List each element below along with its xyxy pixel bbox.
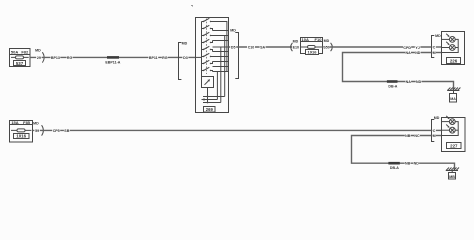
node label 1016 <box>14 134 30 139</box>
connector MD bracket at switch right <box>230 28 238 78</box>
svg-text:S50: S50 <box>323 45 329 49</box>
pin label C <box>432 128 436 133</box>
connector MD pin E10 <box>291 40 299 52</box>
wire label ND <box>415 50 421 55</box>
svg-text:MD: MD <box>35 48 41 52</box>
svg-text:MD: MD <box>33 121 39 125</box>
splice DB-A <box>388 162 399 170</box>
svg-text:CP5: CP5 <box>53 129 60 133</box>
inner actuator box <box>202 77 214 88</box>
svg-text:226: 226 <box>450 59 458 64</box>
svg-text:F85: F85 <box>23 120 31 125</box>
svg-text:269: 269 <box>206 107 214 112</box>
svg-text:MD: MD <box>435 34 441 38</box>
switch common rail <box>201 22 203 77</box>
switch contact 4 <box>202 39 212 43</box>
wire label SB <box>64 128 70 133</box>
pin label M <box>432 133 436 138</box>
svg-text:537: 537 <box>16 61 24 66</box>
wire label NA <box>405 50 411 55</box>
svg-text:M: M <box>433 134 436 138</box>
splice EBP11-A <box>105 56 120 65</box>
node label 1916 <box>306 50 319 55</box>
svg-text:D3: D3 <box>183 56 188 60</box>
wire label CPD <box>403 45 411 50</box>
svg-text:NB: NB <box>405 162 411 166</box>
wire label NA <box>405 79 411 84</box>
junction lines <box>202 88 225 104</box>
pin label C <box>432 45 436 50</box>
svg-text:NA: NA <box>405 51 411 55</box>
switch contact 8 <box>202 67 212 71</box>
connector MD pin 29 <box>35 48 44 62</box>
ground MB <box>446 168 459 180</box>
wire label RG <box>67 55 73 60</box>
svg-text:RG: RG <box>162 56 168 60</box>
svg-text:15A: 15A <box>11 120 18 125</box>
pin C wire <box>432 129 442 131</box>
pin label D5 <box>230 45 236 50</box>
svg-text:29: 29 <box>37 56 41 60</box>
lamp feed branches <box>442 38 450 40</box>
lamp return branch <box>442 122 459 136</box>
switch contact 1 <box>202 18 212 22</box>
fuse box 1016 with fuse F85 <box>10 120 33 142</box>
svg-text:SB: SB <box>64 129 69 133</box>
svg-text:BP11: BP11 <box>149 56 158 60</box>
contact 5 output jog <box>211 50 213 52</box>
contact 3 output jog <box>211 35 213 37</box>
svg-text:NA: NA <box>406 80 412 84</box>
wire label C10 <box>247 45 255 50</box>
wire label RG <box>162 55 168 60</box>
pin D3 feed line inside box <box>196 56 202 58</box>
contact 1 output riser <box>211 22 227 72</box>
svg-text:M: M <box>433 51 436 55</box>
connector MD pin S50 <box>324 39 333 51</box>
connector MD bracket lamp 226 <box>432 34 442 57</box>
svg-text:DB-A: DB-A <box>388 85 397 89</box>
wire label SA <box>260 45 266 50</box>
svg-text:NB: NB <box>405 134 411 138</box>
component label 269 <box>204 107 216 113</box>
wire label NB <box>405 133 411 138</box>
bulb L1 of 226 <box>446 34 455 43</box>
bulb L1 of 227 <box>446 116 455 125</box>
svg-text:BP13: BP13 <box>51 56 60 60</box>
wire switch D5 to fuse 1916 <box>229 46 293 48</box>
steering column lighting switch 269 <box>196 18 229 113</box>
wire label NC <box>414 133 420 138</box>
connector MD bracket lamp 227 <box>432 116 440 142</box>
svg-text:NC: NC <box>414 134 420 138</box>
contact 2 output jog <box>211 29 213 31</box>
pin label D3 <box>182 55 188 60</box>
connector MD bracket at switch left <box>179 41 188 79</box>
svg-text:MD: MD <box>230 28 236 32</box>
svg-text:.,: ., <box>191 2 194 7</box>
switch contact 3 <box>202 32 212 36</box>
splice DB-A <box>387 80 398 88</box>
terminal pin rows <box>213 31 229 72</box>
lamp return branch <box>442 39 459 52</box>
fuse box 1916 with fuse F10 <box>301 37 323 54</box>
fuse element F82 <box>11 56 29 59</box>
wire label CP5 <box>52 128 60 133</box>
svg-text:59: 59 <box>35 129 39 133</box>
svg-text:ND: ND <box>414 162 420 166</box>
contact 7 output jog <box>211 62 213 64</box>
fuse element F10 <box>301 46 323 49</box>
svg-text:MD: MD <box>293 40 299 44</box>
svg-text:MB: MB <box>449 175 455 179</box>
svg-text:E10: E10 <box>293 45 299 49</box>
rear fog lamp unit 226 <box>442 32 465 65</box>
contact 4 output jog <box>211 41 213 43</box>
svg-text:EBP11-A: EBP11-A <box>105 61 120 65</box>
wire label ND <box>413 161 419 166</box>
rear fog lamp unit 227 <box>442 118 466 152</box>
wire fuse1016 to lamp 227 pin C <box>33 129 432 131</box>
svg-text:YJ: YJ <box>415 46 419 50</box>
component label 226 <box>447 58 461 64</box>
svg-text:F82: F82 <box>21 49 29 54</box>
ground MA <box>447 88 460 103</box>
lamp feed branches <box>442 121 450 123</box>
wire lamp226 M to ground MA via splice DB-A <box>343 53 454 91</box>
svg-text:CPD: CPD <box>403 46 411 50</box>
wire label BP11 <box>148 55 158 60</box>
internal link risers <box>217 36 224 103</box>
svg-text:D5: D5 <box>231 45 236 49</box>
pin M wire <box>432 135 442 137</box>
svg-text:50A: 50A <box>11 49 18 54</box>
contact 8 output jog <box>211 71 213 72</box>
svg-text:MA: MA <box>450 97 456 101</box>
pin label 29 <box>36 55 41 60</box>
pin label E10 <box>293 45 299 50</box>
switch contact 5 <box>202 46 212 50</box>
svg-text:MD: MD <box>324 39 330 43</box>
svg-text:10A: 10A <box>302 37 309 42</box>
pin C wire <box>432 46 442 48</box>
wire lamp227 M to ground MB via splice DB-A <box>352 136 455 171</box>
svg-text:1916: 1916 <box>308 50 318 55</box>
svg-text:1016: 1016 <box>16 134 26 139</box>
svg-text:C10: C10 <box>248 45 255 49</box>
fuse box 537 with fuse F82 <box>10 49 31 67</box>
switch contact 2 <box>202 25 212 29</box>
svg-text:ND: ND <box>416 80 422 84</box>
pin M wire <box>432 52 442 54</box>
wire label BP13 <box>51 55 61 60</box>
fuse element F85 <box>11 129 31 132</box>
switch contact 7 <box>202 60 212 64</box>
svg-text:MD: MD <box>434 116 440 120</box>
svg-text:MD: MD <box>182 41 188 45</box>
svg-text:ND: ND <box>415 51 421 55</box>
switch contact 6 <box>202 53 212 57</box>
svg-text:C: C <box>433 129 436 133</box>
pin label M <box>432 50 436 55</box>
svg-text:SA: SA <box>260 45 265 49</box>
bulb L2 of 226 <box>446 42 455 51</box>
component label 227 <box>447 143 462 149</box>
svg-text:DB-A: DB-A <box>390 166 399 170</box>
wire fuse537 to switch pin D3 <box>30 56 196 58</box>
svg-text:227: 227 <box>450 144 458 149</box>
connector MD pin 59 <box>33 121 43 135</box>
wire label ND <box>416 79 422 84</box>
wire fuse 1916 to lamp 226 pin C <box>323 46 432 48</box>
wire label NB <box>405 161 411 166</box>
node label 537 <box>14 61 26 66</box>
svg-text:C: C <box>433 45 436 49</box>
svg-text:RG: RG <box>67 56 73 60</box>
mechanical link dashed <box>206 19 208 75</box>
wire label YJ <box>415 45 421 50</box>
bulb L2 of 227 <box>446 125 455 134</box>
contact 6 output jog <box>211 56 213 58</box>
pin label S50 <box>323 45 330 50</box>
svg-text:F10: F10 <box>315 37 323 42</box>
pin label 59 <box>34 128 39 133</box>
